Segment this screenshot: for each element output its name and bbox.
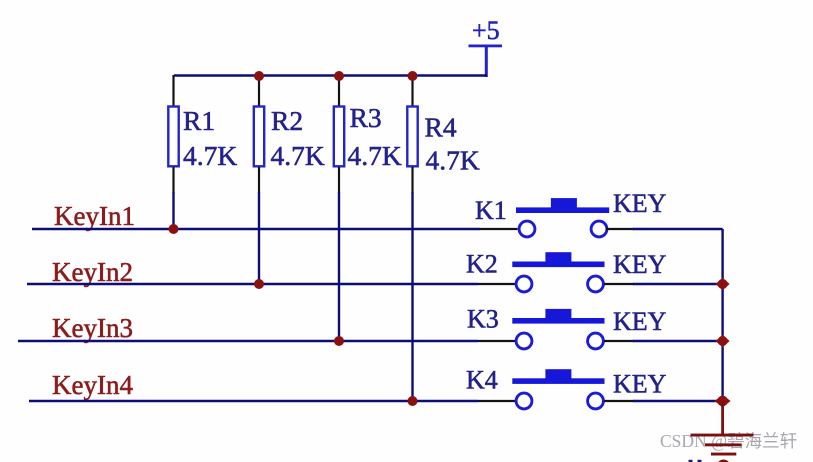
switch K4 button (545, 369, 571, 379)
svg-text:4.7K: 4.7K (426, 145, 480, 176)
pin 2 K3 (588, 333, 604, 349)
switch K4 (466, 366, 667, 409)
wire K2 pin 2 (604, 283, 634, 285)
node junction bus K3 (716, 335, 730, 348)
switch K2 button (545, 252, 571, 262)
switch K3 button (545, 309, 571, 319)
wire K3 to right bus (633, 340, 723, 342)
node junction KeyIn3-R3 (334, 336, 344, 346)
pin 2 K4 (588, 393, 604, 409)
bottom cut-off marks (689, 460, 730, 462)
svg-text:KEY: KEY (613, 189, 667, 218)
svg-text:K3: K3 (467, 305, 499, 334)
ground bar 1 (691, 434, 754, 437)
wire K1 pin 1 (480, 228, 518, 230)
wire R2 to KeyIn2 (258, 192, 260, 284)
wire K4 pin 2 (604, 400, 634, 402)
wire K4 to right bus (633, 400, 723, 402)
ground bar 2 (705, 443, 742, 446)
power symbol +5 (469, 16, 503, 77)
resistor R3 body (334, 107, 344, 167)
svg-text:+5: +5 (472, 16, 500, 45)
wire to ground (721, 401, 724, 434)
wire R3 bottom pin (338, 167, 340, 193)
svg-text:KeyIn3: KeyIn3 (52, 313, 133, 343)
switch K1 button (551, 198, 577, 208)
resistor R4 body (407, 107, 417, 167)
resistor R1 (168, 105, 237, 171)
wire R1 bottom pin (172, 167, 174, 193)
node junction bus K2 (716, 278, 730, 291)
pin 1 K2 (516, 276, 532, 292)
wire K2 pin 1 (478, 283, 516, 285)
switch K3 bar (512, 318, 604, 324)
cutoff glyph mark 1 (689, 460, 693, 462)
svg-text:4.7K: 4.7K (271, 140, 325, 171)
pin 2 K1 (591, 221, 607, 237)
node junction KeyIn2-R2 (254, 279, 264, 289)
svg-text:KeyIn4: KeyIn4 (52, 370, 133, 400)
pin 2 K2 (588, 276, 604, 292)
wire R3 top pin (338, 77, 340, 106)
wire K2 to right bus (633, 283, 723, 285)
svg-text:KeyIn2: KeyIn2 (52, 257, 133, 287)
svg-text:R4: R4 (425, 112, 457, 143)
switch K1 bar (516, 207, 609, 213)
switch K4 bar (512, 378, 604, 384)
wire power stub (485, 46, 488, 77)
wire R4 top pin (411, 77, 413, 106)
wire R2 top pin (258, 77, 260, 106)
switch K3 (467, 305, 667, 349)
wire K3 pin 1 (478, 340, 516, 342)
ground bar 3 (711, 453, 736, 456)
cutoff red mark (718, 460, 730, 462)
wire K1 pin 2 (606, 228, 634, 230)
svg-text:KEY: KEY (613, 250, 667, 279)
wire K4 pin 1 (478, 400, 516, 402)
svg-text:4.7K: 4.7K (348, 140, 402, 171)
wire KeyIn3 (18, 340, 478, 342)
node junction KeyIn4-R4 (408, 396, 418, 406)
wire R4 bottom pin (411, 167, 413, 193)
svg-text:R2: R2 (271, 105, 303, 136)
resistor R2 body (254, 107, 264, 167)
svg-text:K4: K4 (466, 366, 498, 395)
wire R3 to KeyIn3 (338, 192, 340, 341)
wire R4 to KeyIn4 (411, 192, 413, 401)
wire KeyIn2 (27, 283, 478, 285)
wire R1 to KeyIn1 (172, 192, 174, 229)
resistor R4 (407, 107, 480, 176)
resistor R1 body (168, 107, 178, 167)
svg-text:KeyIn1: KeyIn1 (54, 201, 135, 231)
wire K1 to right bus (633, 228, 723, 230)
switch K1 (475, 189, 667, 237)
svg-text:K2: K2 (466, 250, 498, 279)
wire K3 pin 2 (604, 340, 634, 342)
svg-text:R3: R3 (350, 102, 382, 133)
svg-text:KEY: KEY (613, 370, 667, 399)
resistor R3 (334, 102, 402, 171)
wire top bus (174, 74, 487, 76)
wire right bus (721, 229, 723, 402)
svg-text:R1: R1 (183, 105, 215, 136)
node junction bus K4 (715, 395, 731, 407)
switch K2 bar (512, 262, 604, 268)
node junction bus R2 (254, 71, 264, 81)
wire KeyIn1 (32, 228, 480, 230)
power rail bar (469, 45, 503, 48)
svg-text:4.7K: 4.7K (183, 140, 237, 171)
svg-text:K1: K1 (475, 196, 507, 225)
wire KeyIn4 (29, 400, 478, 402)
pin 1 K3 (516, 333, 532, 349)
resistor R2 (254, 105, 325, 171)
cutoff glyph mark 2 (698, 460, 702, 462)
node junction bus R3 (334, 71, 344, 81)
ground (691, 434, 754, 456)
svg-text:KEY: KEY (613, 307, 667, 336)
pin 1 K1 (519, 221, 535, 237)
wire R1 top pin (172, 75, 174, 106)
node junction KeyIn1-R1 (169, 224, 179, 234)
node junction bus R4 (408, 71, 418, 81)
switch K2 (466, 250, 667, 292)
pin 1 K4 (516, 393, 532, 409)
wire R2 bottom pin (258, 167, 260, 193)
